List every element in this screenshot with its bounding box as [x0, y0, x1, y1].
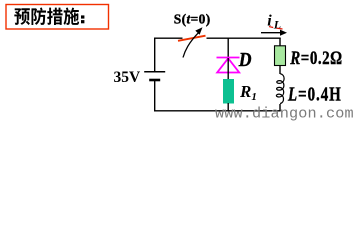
- wire: bottom horizontal: [154, 110, 281, 112]
- battery short plate: [149, 79, 160, 82]
- svg-text:L=0.4H: L=0.4H: [287, 83, 342, 104]
- svg-text:D: D: [238, 49, 252, 71]
- svg-text:S(t=0): S(t=0): [174, 11, 211, 26]
- resistor R (pale green, black border): [275, 46, 286, 66]
- battery 35V: long plate: [144, 71, 165, 73]
- switch actuation arrow (curved): [183, 32, 199, 57]
- title box (red border): [6, 5, 109, 30]
- wire: left vertical (bottom half): [154, 80, 156, 111]
- red underline marks under iL: [269, 26, 273, 29]
- diode D triangle: [217, 58, 239, 72]
- wire: right branch bottom stub: [279, 104, 281, 111]
- title text 预防措施: [14, 7, 79, 25]
- wire: middle branch vertical top: [227, 38, 229, 57]
- label R=0.2ohm: [289, 47, 342, 68]
- svg-text:R1: R1: [239, 82, 257, 103]
- wire: right branch between R and L: [279, 66, 281, 75]
- svg-text:R=0.2Ω: R=0.2Ω: [289, 47, 342, 68]
- wire: middle branch bottom: [227, 103, 229, 111]
- wire: right branch top stub: [279, 38, 281, 45]
- inductor L coil: [276, 74, 284, 104]
- wire: top horizontal right of switch: [207, 37, 281, 39]
- wire: middle branch between diode and R1: [227, 58, 229, 79]
- resistor R1 (teal block): [223, 79, 234, 104]
- switch S blade (red): [178, 36, 206, 41]
- svg-text:www.diangon.com: www.diangon.com: [215, 105, 354, 123]
- svg-text:L: L: [273, 17, 281, 31]
- diode D (magenta) cathode bar: [217, 57, 240, 59]
- label D: [238, 49, 252, 71]
- current arrow iL: [261, 32, 284, 34]
- label L=0.4H: [287, 83, 342, 104]
- title colon: [81, 15, 84, 18]
- wire: top horizontal left of switch: [154, 37, 183, 39]
- svg-text:35V: 35V: [114, 69, 142, 86]
- wire: left vertical (top half): [154, 38, 156, 72]
